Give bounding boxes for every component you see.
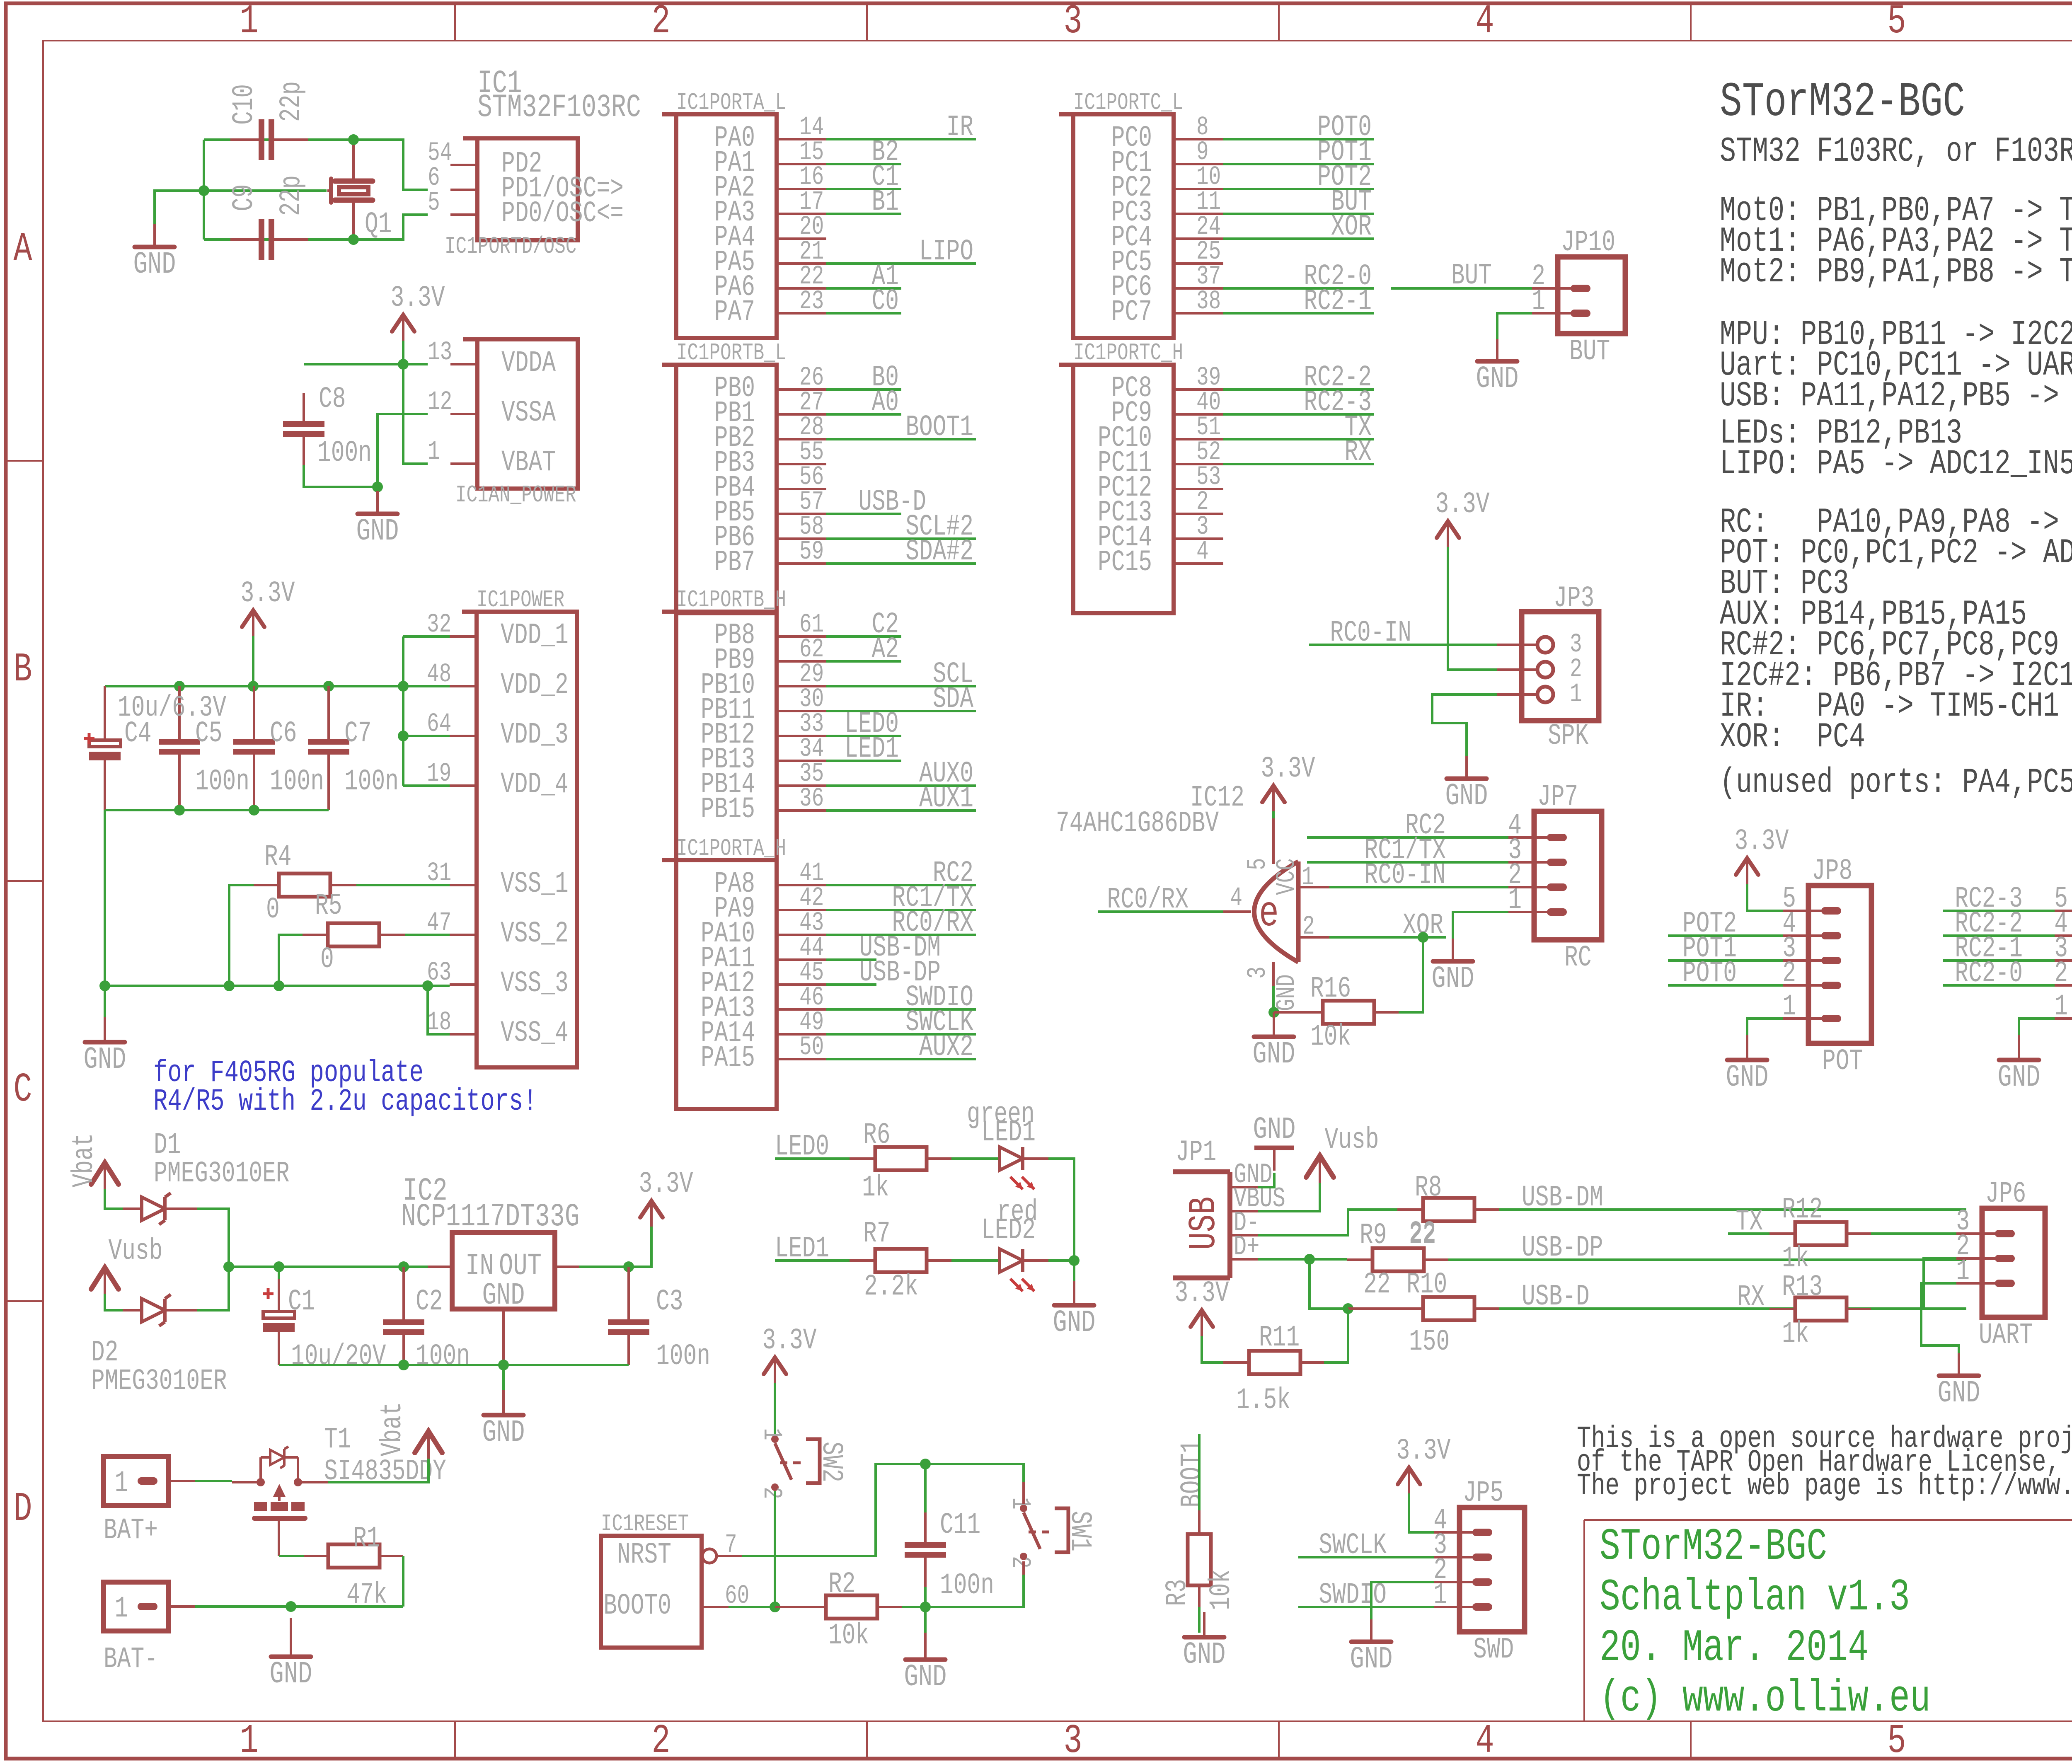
capacitor C11: [905, 1464, 946, 1607]
resistor R9: [1347, 1248, 1448, 1271]
power 3.3V SW2: [762, 1324, 816, 1383]
svg-text:C4: C4: [124, 717, 152, 751]
wire POT0: [1668, 984, 1783, 987]
net label BOOT1: [1176, 1440, 1210, 1508]
svg-text:0: 0: [320, 943, 334, 977]
svg-text:C5: C5: [195, 717, 223, 751]
connector JP10: [1532, 226, 1625, 369]
svg-text:C: C: [13, 1067, 32, 1113]
svg-text:VCC: VCC: [1272, 858, 1302, 895]
svg-text:R10: R10: [1406, 1268, 1447, 1302]
wire JP1 gnd: [1258, 1173, 1274, 1187]
connector JP6: [1956, 1178, 2045, 1353]
svg-text:1: 1: [1302, 862, 1314, 893]
power 3.3V JP3: [1435, 488, 1489, 547]
IC1POWER pin stubs: [450, 636, 477, 1034]
svg-text:LED2: LED2: [981, 1214, 1036, 1248]
title block date: [1600, 1623, 1869, 1673]
IC1PORTC_H net labels: [1304, 361, 1372, 469]
power 3.3V R11: [1174, 1277, 1229, 1336]
R16 labels: [1310, 973, 1351, 1054]
ground GND battery: [270, 1618, 312, 1691]
svg-text:4: 4: [1230, 883, 1242, 913]
ground GND IC12: [1253, 1012, 1295, 1072]
svg-text:VDD_4: VDD_4: [501, 768, 569, 802]
C10 labels: [228, 81, 309, 125]
svg-text:T1: T1: [324, 1423, 351, 1457]
capacitor C5: [159, 686, 200, 810]
D1 labels: [154, 1129, 290, 1191]
resistor R12: [1728, 1222, 1956, 1245]
svg-text:JP6: JP6: [1985, 1178, 2026, 1211]
svg-text:1: 1: [1508, 884, 1522, 917]
net label RC1/TX JP7: [1364, 834, 1446, 868]
wire 3.3V to JP5 pin4: [1409, 1493, 1434, 1532]
svg-text:C3: C3: [656, 1285, 683, 1319]
wire BAT+ to T1: [195, 1480, 232, 1482]
junction R5 left: [274, 980, 284, 991]
IC1PORTD/OSC pin names: [501, 148, 624, 231]
R2 labels: [828, 1568, 869, 1653]
junction VDDA: [398, 359, 409, 370]
IC1PORTC_H pin names: [1098, 372, 1152, 580]
power arrow Vusb JP1: [1306, 1124, 1379, 1183]
svg-text:R9: R9: [1360, 1219, 1387, 1253]
svg-text:D+: D+: [1234, 1232, 1259, 1263]
resistor R11: [1202, 1309, 1348, 1374]
svg-text:R3: R3: [1161, 1579, 1195, 1606]
resistor R3: [1188, 1434, 1211, 1633]
R8 labels: [1409, 1171, 1442, 1251]
svg-text:1: 1: [1532, 285, 1545, 319]
IC1 port box IC1POWER: [462, 587, 577, 1067]
junction VDD2: [398, 681, 409, 692]
svg-text:VSS_2: VSS_2: [501, 917, 569, 951]
R13 labels: [1782, 1271, 1823, 1351]
svg-text:2: 2: [1782, 957, 1796, 991]
IC1PORTA_L pin stubs: [777, 139, 826, 313]
wire D+ down to USB-D: [1310, 1259, 1348, 1309]
junction D+: [1304, 1254, 1315, 1265]
wire D1 cathode to rail: [197, 1209, 229, 1267]
wire VSSA to gnd: [378, 414, 428, 487]
svg-text:GND: GND: [482, 1415, 525, 1450]
svg-text:3.3V: 3.3V: [1734, 825, 1789, 859]
connector JP1 USB: [1173, 1136, 1285, 1278]
wire SW2 to BOOT0: [774, 1491, 776, 1607]
net label RX: [1737, 1281, 1765, 1314]
IC1PORTB_L pin names: [714, 372, 755, 580]
svg-text:GND: GND: [1445, 779, 1488, 813]
wire VDD vertical bus: [403, 636, 450, 786]
net label RC2-0: [1955, 957, 2023, 991]
wire VSS rail: [105, 986, 450, 1034]
svg-text:2: 2: [2054, 957, 2068, 991]
capacitor C7: [308, 686, 349, 810]
ground GND regulator: [482, 1365, 525, 1450]
IC1 port box IC1PORTC_H: [1059, 340, 1183, 613]
IC1PORTC_L pin stubs: [1174, 139, 1223, 313]
svg-text:C2: C2: [416, 1285, 443, 1319]
D2 labels: [91, 1336, 227, 1399]
svg-text:GND: GND: [1726, 1060, 1769, 1095]
svg-text:3: 3: [1243, 966, 1273, 979]
IC1PORTC_H net wires: [1223, 390, 1374, 464]
svg-text:B: B: [13, 647, 32, 693]
IC1PORTC_H pin numbers: [1196, 363, 1221, 567]
capacitor C2: [383, 1267, 424, 1365]
svg-text:1: 1: [2054, 990, 2068, 1024]
wire crystal bottom lead: [352, 203, 355, 240]
svg-text:3.3V: 3.3V: [390, 282, 445, 315]
resistor R10: [1348, 1297, 1499, 1320]
C2 labels: [416, 1285, 470, 1374]
resistor R7: [850, 1249, 951, 1272]
svg-text:C11: C11: [940, 1509, 980, 1542]
wire R1 to BAT- net: [402, 1556, 404, 1607]
IC1 port box IC1AN_POWER: [455, 339, 578, 509]
ground GND JP8: [1726, 1035, 1769, 1095]
svg-text:BAT+: BAT+: [104, 1514, 158, 1548]
svg-text:USB-DM: USB-DM: [1522, 1181, 1603, 1215]
wire JP8 pin1 gnd: [1747, 1019, 1783, 1035]
wire XTAL2 net: [204, 215, 428, 240]
svg-text:BOOT0: BOOT0: [603, 1590, 671, 1623]
wire C8 bottom to gnd: [304, 465, 378, 487]
junction VSS3: [422, 980, 433, 991]
connector JP9: [2054, 855, 2072, 1079]
svg-text:GND: GND: [1998, 1060, 2041, 1095]
svg-text:3.3V: 3.3V: [762, 1324, 816, 1358]
svg-text:4: 4: [1196, 537, 1209, 567]
svg-text:GND: GND: [1350, 1642, 1393, 1677]
R7 labels: [863, 1217, 918, 1304]
wire JP7 pin1 gnd: [1453, 912, 1508, 939]
svg-text:3.3V: 3.3V: [639, 1168, 693, 1201]
svg-text:USB-D: USB-D: [1522, 1280, 1590, 1314]
junction C11 bottom: [920, 1602, 931, 1612]
svg-text:1: 1: [1433, 1579, 1447, 1612]
IC1PORTB_L net labels: [858, 361, 973, 569]
svg-text:R11: R11: [1259, 1321, 1300, 1355]
capacitor C10: [230, 119, 308, 160]
net label RC0-IN JP7: [1364, 859, 1446, 893]
battery pad BAT-: [104, 1582, 195, 1676]
svg-text:PC7: PC7: [1111, 296, 1152, 329]
svg-text:Vbat: Vbat: [376, 1402, 410, 1456]
svg-text:10k: 10k: [1205, 1570, 1239, 1610]
svg-text:1: 1: [756, 1428, 787, 1440]
IC1PORTB_H pin names: [701, 619, 755, 827]
wire BOOT0 net: [729, 1606, 775, 1608]
C1 labels: [288, 1285, 386, 1374]
svg-text:PB7: PB7: [714, 546, 755, 580]
power arrow Vbat top: [68, 1133, 119, 1190]
wire C8 top: [304, 363, 403, 365]
IC1 port box IC1PORTB_L: [662, 340, 786, 613]
wire C11 gnd stem: [924, 1607, 927, 1633]
wire 3.3V to SW2: [774, 1383, 776, 1435]
svg-text:4: 4: [1475, 1718, 1494, 1762]
power arrow Vbat T1: [376, 1402, 442, 1459]
svg-text:SW1: SW1: [1063, 1511, 1097, 1551]
svg-text:PC15: PC15: [1098, 546, 1152, 580]
svg-text:100n: 100n: [416, 1340, 470, 1374]
junction BAT- gnd: [286, 1601, 296, 1612]
svg-text:NRST: NRST: [617, 1539, 671, 1572]
Q1 label: [365, 208, 392, 242]
note for F405RG populate R4/R5: [153, 1055, 537, 1119]
title block copyright: [1600, 1673, 1931, 1724]
svg-text:Schaltplan v1.3: Schaltplan v1.3: [1600, 1572, 1910, 1623]
svg-text:2: 2: [651, 1718, 670, 1762]
net label SWCLK: [1319, 1529, 1387, 1563]
wire cap bottom rail: [105, 810, 329, 986]
svg-text:1: 1: [240, 1718, 258, 1762]
svg-text:GND: GND: [1053, 1305, 1096, 1340]
svg-text:5: 5: [1243, 858, 1273, 870]
IC1PORTC_L net wires: [1223, 139, 1374, 313]
svg-text:IC1AN_POWER: IC1AN_POWER: [455, 482, 576, 509]
svg-text:GND: GND: [84, 1042, 126, 1077]
svg-text:22: 22: [1409, 1219, 1436, 1253]
R11 labels: [1236, 1321, 1300, 1418]
svg-text:AUX2: AUX2: [919, 1031, 973, 1065]
svg-text:IC1PORTB_L: IC1PORTB_L: [676, 340, 786, 367]
junction BOOT0: [770, 1602, 780, 1612]
net label XOR gate output: [1403, 909, 1443, 943]
wire T1 drain to Vbat: [328, 1459, 428, 1482]
svg-text:R2: R2: [828, 1568, 856, 1602]
svg-text:VSS_4: VSS_4: [501, 1017, 569, 1050]
resistor R8: [1397, 1198, 1499, 1221]
IC1 reset box IC1RESET: [601, 1511, 749, 1648]
wire Vin rail: [229, 1266, 428, 1268]
svg-text:R4/R5 with 2.2u capacitors!: R4/R5 with 2.2u capacitors!: [153, 1084, 537, 1119]
net label USB-DM: [1522, 1181, 1603, 1215]
wire SW1 bottom lead: [1022, 1561, 1025, 1575]
svg-text:GND: GND: [133, 247, 176, 282]
svg-text:2: 2: [651, 0, 670, 45]
ground GND JP9: [1998, 1035, 2041, 1095]
svg-text:GND: GND: [1253, 1112, 1296, 1147]
svg-text:23: 23: [799, 286, 824, 317]
svg-text:3.3V: 3.3V: [1435, 488, 1489, 522]
IC1 reference labels: [477, 65, 641, 126]
svg-text:36: 36: [799, 784, 824, 814]
svg-text:C6: C6: [270, 717, 297, 751]
svg-text:JP7: JP7: [1537, 781, 1578, 814]
svg-text:C1: C1: [288, 1285, 315, 1319]
svg-text:2.2k: 2.2k: [864, 1270, 918, 1304]
wire XOR to R16: [1399, 937, 1423, 1012]
diode D1: [105, 1189, 197, 1224]
IC1AN_POWER pin names: [501, 347, 556, 480]
svg-text:100n: 100n: [344, 765, 399, 799]
net label TX: [1736, 1205, 1763, 1239]
IC1 port box IC1PORTA_H: [662, 835, 786, 1109]
license note paragraph: [1577, 1421, 2072, 1503]
svg-text:The project web page is http:/: The project web page is http://www.olliw…: [1577, 1469, 2072, 1503]
svg-text:100n: 100n: [317, 437, 372, 470]
wire R6 to LED1: [951, 1157, 1000, 1160]
svg-text:59: 59: [799, 537, 824, 567]
IC1PORTA_L pin numbers: [799, 112, 824, 317]
IC1PORTB_H net labels: [845, 608, 973, 816]
wire LED1 net: [775, 1259, 850, 1262]
resistor R6: [850, 1147, 951, 1170]
junction rail C7: [323, 681, 334, 692]
R12 labels: [1782, 1193, 1823, 1276]
svg-text:10u/20V: 10u/20V: [291, 1340, 386, 1374]
ground GND JP1 flipped: [1253, 1112, 1296, 1171]
LED LED1 green: [1000, 1147, 1048, 1189]
svg-text:1: 1: [428, 437, 440, 467]
svg-text:RC2-1: RC2-1: [1304, 285, 1372, 319]
svg-text:BUT: BUT: [1569, 335, 1610, 369]
svg-text:R4: R4: [264, 841, 292, 874]
svg-text:7: 7: [725, 1530, 737, 1560]
wire LED1 cathode down: [1048, 1159, 1074, 1261]
wire JP6 pin1 gnd: [1921, 1283, 1959, 1353]
wire RC2-2: [1943, 934, 2055, 937]
junction XTAL gnd: [198, 185, 209, 196]
wire RC0-IN JP7: [1329, 886, 1508, 888]
IC1PORTC_L net labels: [1304, 111, 1372, 319]
capacitor C6: [233, 686, 275, 810]
wire LED2 cathode: [1048, 1259, 1074, 1262]
svg-text:JP3: JP3: [1554, 582, 1594, 616]
wire crystal left plate: [204, 189, 327, 192]
svg-text:PD0/OSC<=: PD0/OSC<=: [501, 197, 624, 231]
capacitor C8: [283, 393, 324, 465]
svg-text:SW2: SW2: [814, 1442, 848, 1482]
net label LED0: [775, 1130, 829, 1164]
svg-text:IC1PORTA_H: IC1PORTA_H: [676, 835, 786, 862]
svg-text:USB: PA11,PA12,PB5 -> USB-DM,D: USB: PA11,PA12,PB5 -> USB-DM,DP,Disc: [1720, 376, 2072, 416]
svg-text:74AHC1G86DBV: 74AHC1G86DBV: [1056, 807, 1219, 841]
wire NRST net: [742, 1464, 1024, 1556]
svg-text:SDA: SDA: [933, 683, 973, 716]
svg-text:RC: RC: [1564, 941, 1592, 975]
IC1PORTB_L pin numbers: [799, 363, 824, 567]
svg-text:R6: R6: [863, 1119, 891, 1152]
connector JP3 SPK: [1497, 582, 1599, 753]
svg-text:1: 1: [1956, 1255, 1970, 1289]
svg-text:SDA#2: SDA#2: [905, 535, 973, 569]
svg-text:NCP1117DT33G: NCP1117DT33G: [401, 1198, 580, 1235]
svg-text:A0: A0: [871, 386, 899, 420]
wire IC12 gnd: [1272, 986, 1275, 1012]
R9 labels: [1360, 1219, 1436, 1253]
svg-text:BOOT1: BOOT1: [1176, 1440, 1210, 1508]
svg-text:VBAT: VBAT: [501, 446, 556, 480]
wire T1 gate to R1: [279, 1555, 304, 1557]
svg-text:VSS_1: VSS_1: [501, 868, 569, 901]
svg-text:SPK: SPK: [1548, 720, 1588, 753]
IC1PORTB_L pin stubs: [777, 390, 826, 564]
wire LED0 net: [775, 1157, 850, 1160]
power 3.3V IC12: [1261, 753, 1315, 811]
voltage regulator IC2: [428, 1233, 579, 1365]
svg-text:50: 50: [799, 1032, 824, 1062]
ground GND JP3: [1445, 756, 1488, 813]
IC1AN_POWER pin stubs: [450, 364, 477, 464]
net label RC0-IN JP3: [1330, 617, 1411, 650]
wire D2 cathode to rail: [197, 1267, 229, 1310]
svg-text:3.3V: 3.3V: [1174, 1277, 1229, 1311]
svg-text:IC1PORTC_L: IC1PORTC_L: [1073, 90, 1183, 116]
svg-text:Q1: Q1: [365, 208, 392, 242]
wire C7 down: [327, 809, 330, 811]
LED LED2 red: [1000, 1249, 1048, 1291]
svg-text:VDD_2: VDD_2: [501, 669, 569, 702]
junction C11 top: [920, 1459, 931, 1469]
svg-text:12: 12: [428, 387, 452, 417]
junction XOR R16: [1418, 932, 1428, 943]
net label RC0/RX: [1107, 883, 1188, 917]
svg-text:22: 22: [1363, 1268, 1391, 1302]
svg-text:A2: A2: [871, 633, 899, 667]
wire 3.3V to JP3 pin2: [1448, 547, 1497, 670]
capacitor C4: [84, 686, 121, 810]
wire 3.3V stem to rail: [252, 636, 254, 686]
svg-text:R7: R7: [863, 1217, 891, 1251]
svg-text:(c) www.olliw.eu: (c) www.olliw.eu: [1600, 1673, 1931, 1724]
IC1PORTB_H pin stubs: [777, 636, 826, 811]
svg-text:150: 150: [1409, 1326, 1450, 1359]
LED2 labels: [981, 1196, 1038, 1248]
svg-text:IC1PORTD/OSC: IC1PORTD/OSC: [445, 233, 576, 260]
svg-text:AUX1: AUX1: [919, 782, 973, 816]
svg-text:PMEG3010ER: PMEG3010ER: [154, 1157, 290, 1191]
net label LED1: [775, 1232, 829, 1266]
diode D2: [105, 1294, 197, 1326]
frame row labels A-D: [13, 227, 2072, 1532]
wire USB-D net: [1499, 1307, 1966, 1310]
wire LED gnd stem: [1073, 1261, 1075, 1281]
svg-text:3: 3: [1063, 1718, 1082, 1762]
svg-text:100n: 100n: [656, 1340, 710, 1374]
svg-text:LIPO: PA5 -> ADC12_IN5: LIPO: PA5 -> ADC12_IN5: [1720, 444, 2072, 484]
transistor T1 SI4835DDY: [232, 1447, 328, 1556]
IC1PORTD/OSC pin numbers: [428, 138, 452, 218]
wire D- to R8: [1258, 1210, 1397, 1235]
wire IC12 vcc: [1272, 811, 1275, 818]
wire RC0-IN net: [1309, 644, 1497, 646]
junction USB-D: [1343, 1303, 1353, 1314]
wire SWCLK net: [1298, 1556, 1434, 1558]
resistor R1: [304, 1544, 403, 1568]
svg-text:GND: GND: [1272, 974, 1302, 1011]
title block frame: [1584, 1520, 2072, 1721]
svg-text:STM32 F103RC, or F103RB, F405R: STM32 F103RC, or F103RB, F405RG: [1720, 131, 2072, 171]
resistor R16: [1274, 1001, 1399, 1024]
svg-text:IC1PORTB_H: IC1PORTB_H: [676, 587, 786, 614]
wire XTAL GND left: [155, 140, 204, 240]
svg-text:20. Mar. 2014: 20. Mar. 2014: [1600, 1623, 1869, 1673]
svg-text:4: 4: [1475, 0, 1494, 45]
svg-text:PA7: PA7: [714, 296, 755, 329]
junction C1 top: [274, 1261, 284, 1272]
net label POT2: [1682, 907, 1737, 941]
connector JP7: [1508, 781, 1602, 975]
svg-text:100n: 100n: [195, 765, 249, 799]
svg-text:UART: UART: [1979, 1319, 2033, 1353]
wire IC2 out rail: [579, 1226, 651, 1267]
svg-text:A: A: [13, 227, 32, 273]
svg-text:XOR: XOR: [1331, 211, 1372, 244]
